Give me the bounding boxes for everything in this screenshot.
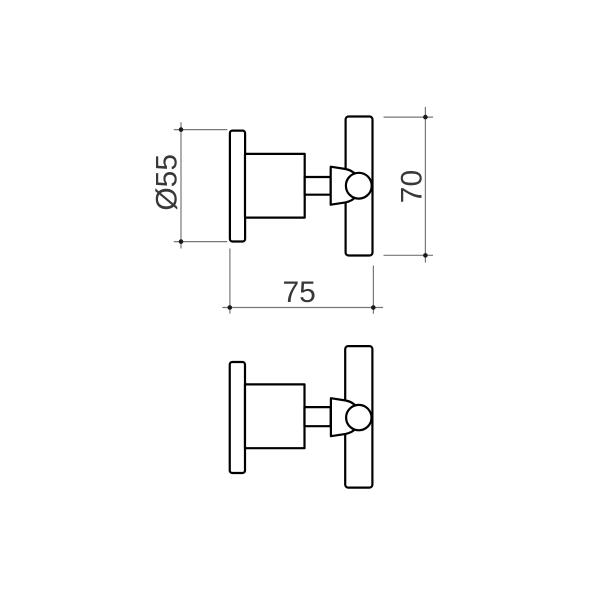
extension line right (75) — [372, 266, 374, 314]
extension line bar top — [384, 116, 434, 118]
dim dot 75 right — [371, 305, 376, 310]
svg-text:75: 75 — [283, 276, 316, 309]
valve body (bottom view) — [245, 384, 305, 448]
svg-text:Ø55: Ø55 — [151, 154, 184, 211]
extension line flange bottom — [174, 241, 228, 243]
dim dot 70 bottom — [423, 253, 428, 258]
handle cross bar (top view) — [346, 117, 373, 256]
dim dot D55 top — [179, 127, 184, 132]
handle cross bar (bottom view) — [345, 346, 372, 488]
extension line flange top — [174, 129, 228, 131]
hub ball (bottom view) — [346, 405, 371, 430]
wall flange (bottom view) — [230, 362, 245, 473]
dimension line D55 — [180, 122, 182, 248]
svg-text:70: 70 — [396, 170, 429, 203]
dimension line 75 — [222, 307, 383, 309]
handle hub (top view) — [331, 167, 357, 205]
spindle stem (bottom view) — [305, 407, 331, 426]
dim dot 75 left — [228, 305, 233, 310]
extension line left (75) — [229, 249, 231, 314]
spindle stem (top view) — [305, 177, 331, 195]
dimension line 70 — [424, 107, 426, 263]
handle hub (bottom view) — [331, 398, 357, 436]
valve body (top view) — [245, 154, 305, 218]
dim dot 70 top — [423, 115, 428, 120]
extension line bar bottom — [384, 254, 434, 256]
wall flange (top view) — [230, 131, 245, 242]
hub ball (top view) — [346, 173, 372, 199]
dim dot D55 bottom — [179, 239, 184, 244]
